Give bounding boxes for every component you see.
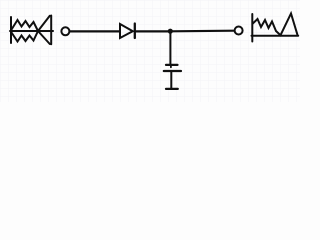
wire junction to output terminal bbox=[170, 30, 234, 33]
clamped waveform symbol (output icon) bbox=[252, 14, 299, 42]
wire junction down to capacitor bbox=[169, 31, 171, 64]
surge waveform symbol (input source icon) bbox=[10, 16, 53, 45]
wire input terminal to diode bbox=[70, 30, 119, 32]
ground bar bbox=[166, 88, 178, 90]
wire capacitor to ground bbox=[170, 72, 172, 89]
input terminal bbox=[61, 27, 69, 35]
junction node bbox=[168, 29, 173, 34]
wire diode to junction bbox=[136, 30, 171, 32]
diode D1 bbox=[120, 24, 135, 39]
output terminal bbox=[235, 27, 243, 35]
capacitor C1 bbox=[164, 65, 181, 71]
